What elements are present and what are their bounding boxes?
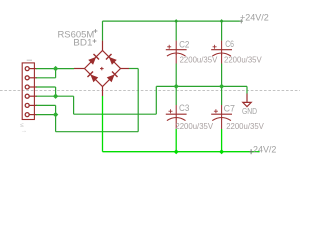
- capacitor C2: [166, 41, 187, 64]
- wire center-tap up: [155, 86, 157, 114]
- junction -24V C7: [219, 149, 224, 154]
- svg-text:BD1: BD1: [73, 38, 92, 48]
- svg-text:C3: C3: [179, 103, 189, 113]
- wire pin4 to jog: [36, 95, 73, 97]
- wire bridge plus up: [102, 21, 104, 40]
- wire C6 top drop: [221, 21, 223, 40]
- sheet divider dashed line: [0, 89, 300, 91]
- wire pin5 down to pin6: [55, 105, 57, 131]
- svg-text:2200u/35V: 2200u/35V: [224, 56, 262, 65]
- wire AC2 bottom run: [56, 131, 139, 133]
- bridge center plus: [100, 67, 104, 70]
- svg-text:→: →: [21, 128, 28, 135]
- wire pin5: [36, 104, 55, 106]
- connector J1 pin circles: [25, 67, 29, 117]
- wire center-tap across: [74, 113, 157, 115]
- wire AC2 into bridge: [129, 68, 138, 70]
- wire GND bus: [156, 85, 247, 87]
- bridge diode D-LL: [87, 71, 98, 82]
- C7 polarity plus: [214, 109, 218, 113]
- svg-text:C6: C6: [225, 39, 234, 49]
- wire pin3-pin4 tie: [55, 87, 57, 96]
- wire pin1 to bridge AC1: [36, 68, 74, 70]
- wire C7 bottom (bright): [221, 129, 223, 152]
- origin cross bridge name: [93, 39, 97, 43]
- C2 polarity plus: [167, 45, 171, 49]
- junction GND C2/C3: [174, 84, 179, 89]
- wire GND drop: [246, 86, 248, 93]
- bridge rectifier BD1 outline: [74, 41, 129, 96]
- wire C2 top drop: [175, 21, 177, 40]
- C6 polarity plus: [213, 45, 217, 49]
- wire AC2 riser: [137, 69, 139, 132]
- wire pin2: [36, 77, 55, 79]
- wire pin1-pin2 tie: [55, 69, 57, 78]
- svg-text:GND: GND: [242, 106, 257, 116]
- junction rail C2: [174, 19, 178, 23]
- wire -24V rail (bright): [103, 151, 260, 153]
- junction GND C6/C7: [219, 84, 224, 89]
- wire +24V rail: [103, 20, 243, 22]
- svg-text:2200u/35V: 2200u/35V: [226, 122, 264, 131]
- wire bridge minus drop (bright): [102, 96, 104, 152]
- junction pins 5-6: [53, 112, 58, 117]
- svg-text:2200u/35V: 2200u/35V: [175, 122, 213, 131]
- wire center-tap down: [73, 96, 75, 114]
- junction rail C6: [220, 19, 224, 23]
- svg-text:24V/2: 24V/2: [253, 145, 276, 156]
- svg-text:C7: C7: [224, 104, 236, 114]
- capacitor C7: [211, 105, 232, 129]
- capacitor C3: [166, 105, 187, 129]
- supply pin cross top: [240, 19, 243, 23]
- bridge diode D-LR: [106, 71, 117, 82]
- svg-text:+24V/2: +24V/2: [240, 12, 269, 23]
- junction -24V C3: [174, 149, 179, 154]
- connector J1 top tiny label: [27, 59, 32, 61]
- bridge diode D-UL: [88, 54, 99, 65]
- svg-text:2200u/35V: 2200u/35V: [180, 56, 218, 65]
- junction pins 3-4: [53, 94, 58, 99]
- supply pin cross bottom: [249, 149, 252, 154]
- connector J1 body: [22, 63, 34, 120]
- junction pins 1-2: [53, 66, 58, 71]
- svg-text:C2: C2: [179, 40, 189, 50]
- bridge diode D-UR: [106, 54, 117, 65]
- capacitor C6: [211, 41, 232, 64]
- wire C6 bottom to GND bus: [221, 64, 223, 106]
- ground symbol: [243, 94, 251, 107]
- connector J1 pin stubs: [29, 69, 37, 115]
- origin cross bridge value: [94, 29, 98, 33]
- wire C3 bottom (bright): [175, 129, 177, 152]
- C3 polarity plus: [169, 109, 173, 113]
- wire pin6: [36, 114, 55, 116]
- wire C2 bottom to GND bus: [175, 64, 177, 106]
- wire pin3: [36, 86, 55, 88]
